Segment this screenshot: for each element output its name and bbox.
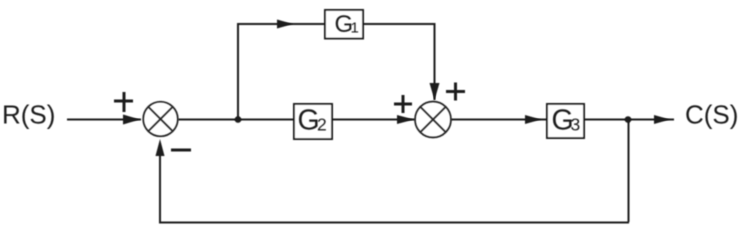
svg-text:3: 3 [571, 115, 581, 135]
svg-text:R(S): R(S) [2, 100, 55, 130]
svg-text:C(S): C(S) [685, 100, 738, 130]
svg-text:2: 2 [317, 115, 327, 135]
svg-text:1: 1 [351, 20, 359, 37]
